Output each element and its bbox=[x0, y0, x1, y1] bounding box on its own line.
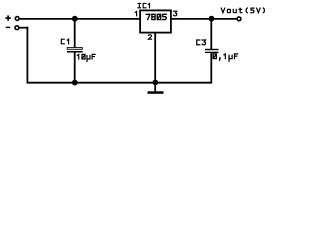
minus sign (- input polarity) bbox=[6, 26, 11, 28]
junction node ground bbox=[152, 80, 158, 86]
ground symbol bbox=[148, 83, 164, 94]
wire + terminal to IC1 pin 1 bbox=[20, 18, 141, 20]
wire C3 lower lead bbox=[210, 53, 212, 83]
terminal + input bbox=[15, 17, 19, 21]
wire bottom ground rail bbox=[27, 82, 212, 84]
terminal Vout output bbox=[237, 17, 241, 21]
pin 1 label of IC1 bbox=[135, 11, 136, 15]
terminal - input bbox=[15, 26, 19, 30]
wire C1 lower lead bbox=[74, 52, 76, 82]
label 0,1uF value of C3 bbox=[213, 54, 237, 61]
wire IC1 pin3 to Vout terminal bbox=[171, 18, 237, 20]
wire C1 upper lead bbox=[74, 19, 76, 48]
capacitor C3 plates bbox=[205, 49, 219, 53]
pin 2 label of IC1 bbox=[148, 35, 151, 39]
plus sign (+ input polarity) bbox=[5, 15, 10, 20]
label C1 bbox=[61, 39, 68, 44]
pin 3 label of IC1 bbox=[173, 11, 176, 16]
label C3 bbox=[197, 40, 206, 45]
label IC1 bbox=[138, 3, 149, 7]
wire IC1 pin2 down to rail bbox=[154, 33, 156, 83]
label 7805 inside IC1 bbox=[146, 14, 166, 19]
junction node C1 top bbox=[72, 16, 78, 22]
wire C3 upper lead bbox=[210, 19, 212, 49]
label 10uF value of C1 bbox=[77, 54, 95, 61]
junction node C3 top bbox=[209, 16, 215, 22]
IC IC1 regulator box bbox=[140, 10, 171, 32]
wire - terminal vertical down to rail bbox=[26, 27, 28, 83]
label Vout(5V) bbox=[221, 8, 264, 13]
junction node C1 bottom bbox=[72, 80, 78, 86]
capacitor C1 electrolytic plates bbox=[67, 48, 83, 53]
wire - terminal horizontal bbox=[19, 27, 28, 29]
